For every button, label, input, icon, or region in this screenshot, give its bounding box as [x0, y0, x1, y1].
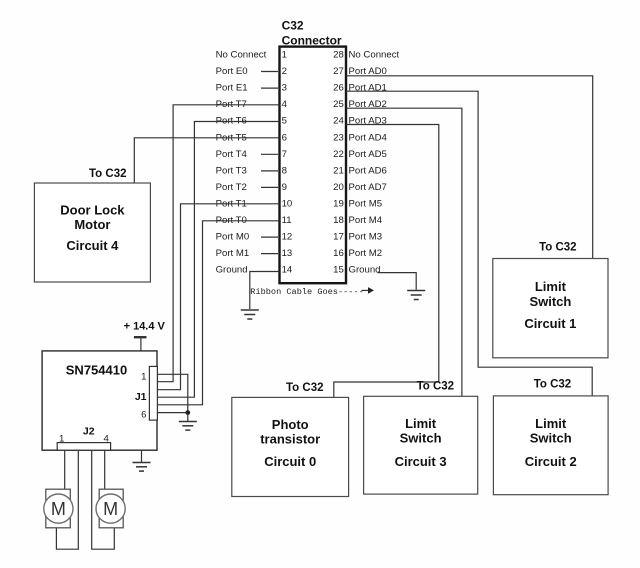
- svg-text:Port AD4: Port AD4: [349, 132, 388, 143]
- wire J1 pin6 to ground rail: [157, 413, 187, 421]
- pin 22 (Port AD5): [333, 149, 387, 160]
- pin 25 (Port AD2): [333, 99, 387, 110]
- svg-text:Switch: Switch: [400, 431, 442, 446]
- pin 1 (No Connect): [216, 50, 287, 61]
- pin 3 (Port E1): [216, 83, 287, 94]
- wire pin26 Port AD1 to Limit Switch Circuit 2: [346, 91, 592, 396]
- svg-text:M: M: [51, 499, 66, 519]
- pin 10 (Port T1): [216, 199, 293, 210]
- svg-text:Port M4: Port M4: [349, 215, 383, 226]
- pin 6 (Port T5): [216, 132, 287, 143]
- ribbon cable note: [250, 287, 374, 297]
- svg-text:3: 3: [282, 83, 287, 94]
- svg-text:8: 8: [282, 165, 287, 176]
- svg-text:21: 21: [333, 165, 344, 176]
- svg-text:12: 12: [282, 232, 293, 243]
- wire J2 pin3 to motor M2 bottom: [92, 450, 115, 549]
- svg-text:18: 18: [333, 215, 344, 226]
- wire pin15 Ground to ground symbol: [378, 273, 417, 290]
- wire pin11 Port T0 to J1 pin5: [157, 221, 279, 405]
- svg-text:11: 11: [282, 215, 292, 226]
- svg-text:15: 15: [333, 265, 344, 276]
- connector C32 title: [282, 19, 342, 48]
- svg-text:28: 28: [333, 50, 344, 61]
- pin 23 (Port AD4): [333, 132, 387, 143]
- ground symbol below J1: [179, 422, 197, 431]
- svg-text:10: 10: [282, 199, 293, 210]
- svg-text:4: 4: [104, 434, 110, 445]
- pin 21 (Port AD6): [333, 165, 387, 176]
- pin 16 (Port M2): [333, 248, 382, 259]
- svg-text:Port AD5: Port AD5: [349, 149, 387, 160]
- Photo transistor Circuit 0 box: [232, 397, 349, 496]
- wire pin14 Ground to ground symbol: [250, 272, 280, 310]
- wire pin27 Port AD0 to Limit Switch Circuit 1: [346, 76, 593, 259]
- wire pin25 Port AD2 to Limit Switch Circuit 3: [346, 108, 462, 396]
- pin 27 (Port AD0): [333, 66, 387, 77]
- pin 11 (Port T0): [216, 215, 292, 226]
- svg-text:Circuit 0: Circuit 0: [264, 454, 316, 469]
- Limit Switch Circuit 1 box: [493, 259, 608, 358]
- ground symbol below SN754410: [133, 450, 151, 471]
- svg-text:Switch: Switch: [529, 294, 571, 309]
- pin 4 (Port T7): [216, 99, 288, 110]
- pin 5 (Port T6): [216, 116, 287, 127]
- svg-text:Port M2: Port M2: [349, 248, 383, 259]
- svg-text:24: 24: [333, 116, 344, 127]
- wire pin24 Port AD3 to Photo transistor Circuit 0: [334, 125, 439, 398]
- wire pin4 Port T7 to J1 pin2: [157, 105, 279, 382]
- svg-text:27: 27: [333, 66, 344, 77]
- svg-text:M: M: [103, 499, 118, 519]
- svg-text:13: 13: [282, 248, 293, 259]
- svg-text:Port AD7: Port AD7: [349, 182, 387, 193]
- svg-text:1: 1: [141, 372, 146, 383]
- motor M1: [44, 489, 73, 528]
- wire J2 pin2 to motor M1 bottom: [56, 450, 78, 549]
- svg-text:Circuit 2: Circuit 2: [525, 454, 577, 469]
- ground symbol left of ribbon note: [241, 310, 259, 319]
- pin 26 (Port AD1): [333, 83, 387, 94]
- svg-text:Port E0: Port E0: [216, 66, 248, 77]
- svg-text:23: 23: [333, 132, 344, 143]
- svg-text:Port M0: Port M0: [216, 232, 250, 243]
- svg-text:Ground: Ground: [216, 265, 248, 276]
- pin 9 (Port T2): [216, 182, 287, 193]
- svg-text:22: 22: [333, 149, 344, 160]
- pin 14 (Ground): [216, 265, 293, 276]
- svg-text:Circuit 4: Circuit 4: [66, 238, 119, 253]
- svg-text:To C32: To C32: [539, 242, 577, 254]
- driver IC SN754410 box: [42, 351, 157, 450]
- Door Lock Motor Circuit 4 box: [34, 183, 150, 282]
- svg-text:No Connect: No Connect: [216, 50, 267, 61]
- pin 2 (Port E0): [216, 66, 287, 77]
- svg-text:J1: J1: [135, 391, 147, 403]
- wire J2 pin1 to motor M1 top: [64, 450, 66, 489]
- pin 24 (Port AD3): [333, 116, 387, 127]
- pin 18 (Port M4): [333, 215, 383, 226]
- svg-text:Port T4: Port T4: [216, 149, 248, 160]
- svg-text:To C32: To C32: [286, 382, 324, 394]
- +14.4 V supply bar and stem: [134, 337, 147, 351]
- svg-text:transistor: transistor: [260, 431, 320, 446]
- svg-text:6: 6: [282, 132, 287, 143]
- svg-text:Motor: Motor: [74, 217, 110, 232]
- pin 19 (Port M5): [333, 199, 382, 210]
- connector J2: [57, 426, 110, 451]
- svg-text:To C32: To C32: [417, 381, 455, 393]
- wire pin10 Port T1 to J1 pin3: [157, 204, 279, 390]
- svg-text:14: 14: [282, 265, 293, 276]
- svg-text:1: 1: [282, 50, 287, 61]
- pin 15 (Ground): [333, 265, 380, 276]
- svg-text:20: 20: [333, 182, 344, 193]
- svg-text:Port T3: Port T3: [216, 165, 247, 176]
- svg-text:7: 7: [282, 149, 287, 160]
- pin 17 (Port M3): [333, 232, 382, 243]
- pin 28 (No Connect): [333, 50, 399, 61]
- svg-text:J2: J2: [83, 426, 95, 438]
- svg-text:5: 5: [282, 116, 287, 127]
- svg-text:1: 1: [59, 434, 64, 445]
- svg-text:4: 4: [282, 99, 288, 110]
- svg-text:Limit: Limit: [405, 416, 437, 431]
- svg-text:6: 6: [141, 410, 146, 421]
- svg-text:Port AD1: Port AD1: [349, 83, 387, 94]
- svg-text:Port E1: Port E1: [216, 83, 248, 94]
- svg-text:Port T2: Port T2: [216, 182, 247, 193]
- svg-text:Port M5: Port M5: [349, 199, 383, 210]
- svg-text:To C32: To C32: [89, 168, 127, 180]
- svg-text:Circuit 3: Circuit 3: [395, 454, 447, 469]
- svg-text:Switch: Switch: [530, 431, 572, 446]
- svg-text:Port M3: Port M3: [349, 232, 383, 243]
- svg-text:Port AD6: Port AD6: [349, 165, 387, 176]
- svg-text:25: 25: [333, 99, 344, 110]
- svg-text:Limit: Limit: [535, 416, 567, 431]
- junction J1 ground: [185, 410, 190, 415]
- wire J1 pin1 to ground rail: [157, 374, 187, 412]
- pin 8 (Port T3): [216, 165, 287, 176]
- pin 7 (Port T4): [216, 149, 287, 160]
- Limit Switch Circuit 3 box: [364, 396, 478, 494]
- svg-text:16: 16: [333, 248, 344, 259]
- svg-text:26: 26: [333, 83, 344, 94]
- svg-text:Photo: Photo: [272, 417, 309, 432]
- wire J2 pin4 to motor M2 top: [104, 450, 106, 489]
- svg-text:Circuit 1: Circuit 1: [524, 316, 576, 331]
- connector C32 body: [280, 47, 347, 284]
- svg-text:Ribbon Cable Goes-----: Ribbon Cable Goes-----: [250, 287, 363, 297]
- connector J1: [135, 366, 158, 420]
- svg-text:19: 19: [333, 199, 344, 210]
- svg-text:No Connect: No Connect: [349, 50, 400, 61]
- svg-text:To C32: To C32: [534, 379, 572, 391]
- Limit Switch Circuit 2 box: [493, 396, 608, 495]
- svg-text:2: 2: [282, 66, 287, 77]
- svg-text:17: 17: [333, 232, 344, 243]
- wire pin6 Port T5 to Door Lock Motor: [134, 138, 279, 183]
- ground symbol right below connector: [407, 291, 425, 300]
- wire pin5 Port T6 to J1 pin4: [157, 122, 279, 398]
- pin 13 (Port M1): [216, 248, 293, 259]
- svg-text:Limit: Limit: [535, 279, 567, 294]
- svg-text:C32: C32: [282, 19, 304, 33]
- svg-text:Door Lock: Door Lock: [60, 203, 125, 218]
- motor M2: [96, 489, 125, 528]
- pin 20 (Port AD7): [333, 182, 387, 193]
- pin 12 (Port M0): [216, 232, 293, 243]
- svg-text:+ 14.4 V: + 14.4 V: [124, 321, 166, 333]
- svg-text:Ground: Ground: [349, 265, 381, 276]
- svg-text:Port M1: Port M1: [216, 248, 250, 259]
- svg-text:9: 9: [282, 182, 287, 193]
- svg-text:SN754410: SN754410: [66, 363, 127, 378]
